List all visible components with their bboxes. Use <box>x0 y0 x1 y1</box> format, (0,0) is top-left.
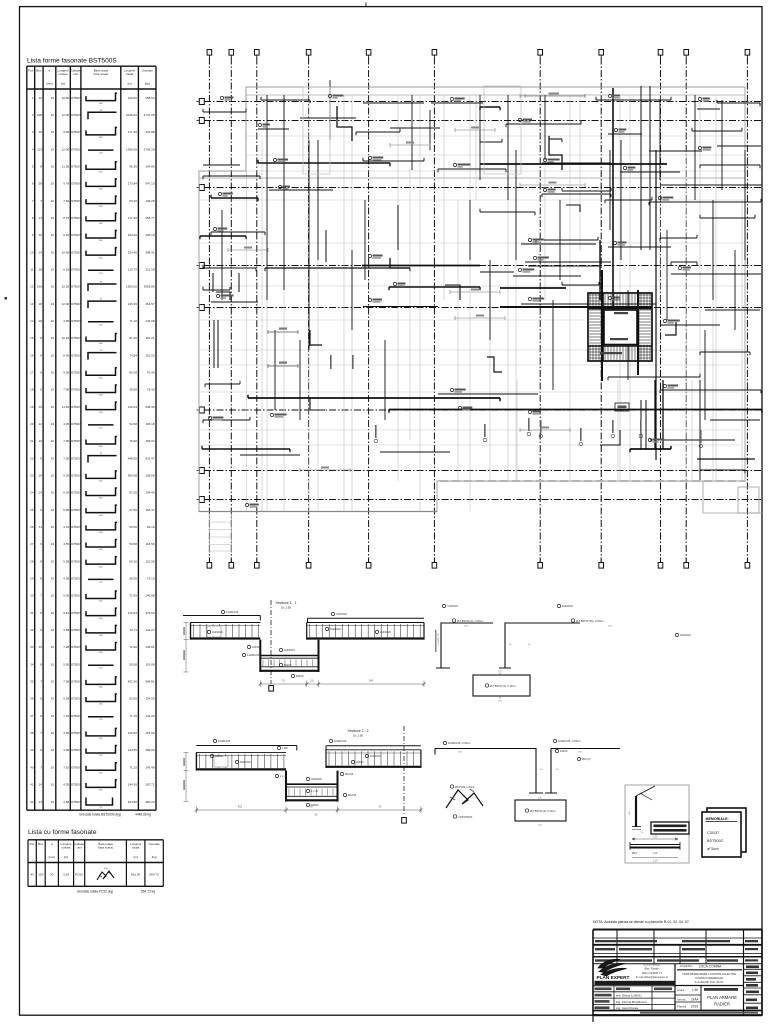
svg-text:9: 9 <box>40 371 42 375</box>
svg-text:28: 28 <box>30 559 34 563</box>
svg-text:BST500S: BST500S <box>70 267 82 271</box>
svg-text:Ø10/15: Ø10/15 <box>348 794 357 797</box>
svg-text:24: 24 <box>30 491 34 495</box>
svg-text:10: 10 <box>30 250 34 254</box>
svg-text:Ø 8 BST50-10, c=25cm: Ø 8 BST50-10, c=25cm <box>457 620 483 623</box>
svg-text:10: 10 <box>51 113 55 117</box>
svg-text:126: 126 <box>498 701 502 703</box>
svg-text:BST500S: BST500S <box>70 577 82 581</box>
svg-text:125: 125 <box>99 273 103 275</box>
svg-text:79.60: 79.60 <box>129 439 137 443</box>
svg-text:125: 125 <box>99 427 103 429</box>
svg-text:5.28: 5.28 <box>63 697 69 701</box>
svg-text:4.55: 4.55 <box>63 731 69 735</box>
svg-text:125: 125 <box>99 719 103 721</box>
svg-text:71.15: 71.15 <box>129 714 137 718</box>
svg-text:otel: otel <box>73 72 78 76</box>
svg-text:8xØ10: 8xØ10 <box>215 755 223 758</box>
svg-text:141.27: 141.27 <box>145 628 155 632</box>
svg-text:547.13: 547.13 <box>145 182 155 186</box>
svg-text:PLAN EXPERT: PLAN EXPERT <box>597 975 630 980</box>
svg-text:452.36: 452.36 <box>128 680 138 684</box>
svg-text:360: 360 <box>99 446 103 448</box>
svg-text:125: 125 <box>99 582 103 584</box>
svg-text:59.58: 59.58 <box>129 542 137 546</box>
svg-text:1.20: 1.20 <box>653 836 658 839</box>
svg-text:79.40: 79.40 <box>147 388 155 392</box>
svg-text:a² 5cm: a² 5cm <box>707 847 719 851</box>
svg-text:Sc 1:50: Sc 1:50 <box>281 606 292 610</box>
svg-text:10: 10 <box>51 233 55 237</box>
svg-text:72.90: 72.90 <box>129 645 137 649</box>
svg-text:360: 360 <box>99 189 103 191</box>
svg-text:360: 360 <box>99 738 103 740</box>
svg-text:6.15: 6.15 <box>63 267 69 271</box>
svg-text:16: 16 <box>39 405 43 409</box>
svg-text:7xØ10/20: 7xØ10/20 <box>336 613 347 616</box>
svg-text:360: 360 <box>99 532 103 534</box>
svg-text:74.84: 74.84 <box>129 353 137 357</box>
svg-text:LOCA COMNA: LOCA COMNA <box>699 965 722 969</box>
svg-text:1:50: 1:50 <box>692 988 698 992</box>
svg-text:RADIER: RADIER <box>714 1002 730 1007</box>
svg-text:BST500S: BST500S <box>70 164 82 168</box>
svg-text:10: 10 <box>51 748 55 752</box>
svg-text:10: 10 <box>51 422 55 426</box>
svg-text:360: 360 <box>99 635 103 637</box>
svg-text:BST500S: BST500S <box>70 113 82 117</box>
svg-text:289.00: 289.00 <box>145 748 155 752</box>
svg-text:7: 7 <box>40 765 42 769</box>
svg-text:12: 12 <box>30 285 34 289</box>
svg-text:[mm]: [mm] <box>49 855 56 859</box>
svg-text:78: 78 <box>100 350 103 352</box>
svg-text:BST500S: BST500S <box>70 594 82 598</box>
svg-text:360: 360 <box>99 790 103 792</box>
svg-text:52.68: 52.68 <box>129 422 137 426</box>
svg-text:10: 10 <box>51 662 55 666</box>
svg-text:10: 10 <box>51 697 55 701</box>
svg-text:6: 6 <box>32 182 34 186</box>
svg-text:[kg]: [kg] <box>145 82 150 86</box>
svg-text:CUI B-292018,: CUI B-292018, <box>643 963 660 967</box>
svg-text:BST500S: BST500S <box>70 250 82 254</box>
svg-text:206.19: 206.19 <box>145 233 155 237</box>
svg-text:BST500S: BST500S <box>70 199 82 203</box>
svg-text:23: 23 <box>30 474 34 478</box>
svg-text:BST500S: BST500S <box>70 731 82 735</box>
svg-text:10: 10 <box>51 199 55 203</box>
svg-text:format: format <box>677 998 686 1002</box>
svg-text:9xØ10/20: 9xØ10/20 <box>562 605 573 608</box>
svg-text:14: 14 <box>39 491 43 495</box>
svg-text:10: 10 <box>51 147 55 151</box>
svg-text:SI SPATII COMERCIALE: SI SPATII COMERCIALE <box>695 977 723 980</box>
svg-text:4.55: 4.55 <box>63 542 69 546</box>
svg-text:19: 19 <box>30 405 34 409</box>
svg-text:310.04: 310.04 <box>128 405 138 409</box>
svg-text:10: 10 <box>51 405 55 409</box>
svg-text:360: 360 <box>99 171 103 173</box>
svg-text:Poz: Poz <box>30 842 36 846</box>
svg-text:531.47: 531.47 <box>145 456 155 460</box>
svg-text:Lista forme fasonate BST500S: Lista forme fasonate BST500S <box>27 58 117 65</box>
svg-text:5: 5 <box>40 714 42 718</box>
svg-text:4.35: 4.35 <box>63 422 69 426</box>
svg-text:8: 8 <box>40 336 42 340</box>
svg-text:40: 40 <box>30 765 34 769</box>
svg-text:171.36: 171.36 <box>128 130 138 134</box>
svg-text:360: 360 <box>99 566 103 568</box>
svg-text:104.40: 104.40 <box>145 491 155 495</box>
svg-text:Ø10 (6): Ø10 (6) <box>582 758 591 761</box>
svg-text:142.26: 142.26 <box>145 714 155 718</box>
svg-text:9: 9 <box>40 456 42 460</box>
svg-text:×8 BST500S: ×8 BST500S <box>458 816 473 819</box>
svg-text:258.54: 258.54 <box>145 96 155 100</box>
svg-text:10: 10 <box>39 439 43 443</box>
svg-text:17: 17 <box>30 371 34 375</box>
svg-text:50: 50 <box>315 813 318 817</box>
svg-text:10: 10 <box>51 285 55 289</box>
svg-text:78: 78 <box>100 110 103 112</box>
svg-text:360: 360 <box>99 687 103 689</box>
svg-text:1.06: 1.06 <box>653 852 658 855</box>
svg-text:1356.00: 1356.00 <box>126 147 137 151</box>
svg-text:BST500S: BST500S <box>70 800 82 804</box>
svg-text:29: 29 <box>30 577 34 581</box>
svg-text:39: 39 <box>30 748 34 752</box>
svg-text:45: 45 <box>528 644 531 646</box>
svg-text:10: 10 <box>51 456 55 460</box>
svg-text:3.58: 3.58 <box>63 800 69 804</box>
svg-text:12: 12 <box>39 96 43 100</box>
svg-text:45: 45 <box>509 644 512 646</box>
svg-text:5.95: 5.95 <box>63 508 69 512</box>
svg-text:904.81: 904.81 <box>145 680 155 684</box>
svg-text:78: 78 <box>100 281 103 283</box>
svg-text:10: 10 <box>51 353 55 357</box>
svg-text:73.10: 73.10 <box>147 577 155 581</box>
svg-text:BST500S: BST500S <box>70 285 82 289</box>
svg-text:9.90: 9.90 <box>63 371 69 375</box>
svg-text:71.15: 71.15 <box>129 765 137 769</box>
svg-text:ing. Florina Bratulescu: ing. Florina Bratulescu <box>616 1000 647 1004</box>
svg-text:Ø10/15: Ø10/15 <box>345 773 354 776</box>
svg-text:BST500S: BST500S <box>70 388 82 392</box>
svg-text:7: 7 <box>32 199 34 203</box>
svg-text:2: 2 <box>32 113 34 117</box>
svg-text:PC52: PC52 <box>75 873 83 877</box>
svg-text:126: 126 <box>498 671 502 673</box>
svg-text:45: 45 <box>556 769 559 771</box>
svg-text:10xØ10/20: 10xØ10/20 <box>334 740 347 743</box>
svg-text:76.40: 76.40 <box>147 371 155 375</box>
svg-text:30: 30 <box>30 594 34 598</box>
svg-text:10: 10 <box>51 302 55 306</box>
svg-text:4747.25: 4747.25 <box>144 113 155 117</box>
svg-text:BST500S: BST500S <box>70 491 82 495</box>
svg-text:375.53: 375.53 <box>145 611 155 615</box>
svg-text:25: 25 <box>30 508 34 512</box>
svg-text:BST500S: BST500S <box>70 96 82 100</box>
svg-text:9.05: 9.05 <box>63 130 69 134</box>
svg-text:CONSTRUIRE IMOBIL LOCUINTE COL: CONSTRUIRE IMOBIL LOCUINTE COLECTIVE <box>682 973 736 976</box>
svg-text:360: 360 <box>99 772 103 774</box>
svg-text:10: 10 <box>51 164 55 168</box>
svg-text:BST500S: BST500S <box>70 559 82 563</box>
svg-text:10: 10 <box>51 542 55 546</box>
svg-text:89.28: 89.28 <box>129 371 137 375</box>
svg-text:10: 10 <box>51 800 55 804</box>
svg-text:388.41: 388.41 <box>145 250 155 254</box>
svg-text:33: 33 <box>30 645 34 649</box>
svg-text:4xØ10/20: 4xØ10/20 <box>680 634 691 637</box>
svg-text:BST500S: BST500S <box>70 130 82 134</box>
svg-text:16: 16 <box>39 233 43 237</box>
svg-text:(fara scara): (fara scara) <box>98 846 113 850</box>
svg-text:3.26: 3.26 <box>63 873 69 877</box>
svg-text:300.68: 300.68 <box>128 474 138 478</box>
svg-text:Lista cu forme fasonate: Lista cu forme fasonate <box>28 829 97 836</box>
svg-text:BST500S: BST500S <box>70 336 82 340</box>
svg-text:36: 36 <box>30 697 34 701</box>
svg-text:216.36: 216.36 <box>128 302 138 306</box>
svg-text:7.96: 7.96 <box>63 439 69 443</box>
svg-text:360: 360 <box>99 223 103 225</box>
svg-text:648.45: 648.45 <box>145 405 155 409</box>
svg-text:10: 10 <box>51 731 55 735</box>
svg-text:117.36: 117.36 <box>128 216 137 220</box>
svg-text:ing. Ionel Florea: ing. Ionel Florea <box>616 1006 638 1010</box>
svg-text:500: 500 <box>464 626 468 628</box>
svg-text:8: 8 <box>32 216 34 220</box>
svg-text:Buc: Buc <box>38 842 44 846</box>
svg-text:BST500S: BST500S <box>70 233 82 237</box>
svg-text:10: 10 <box>51 525 55 529</box>
svg-text:10: 10 <box>51 267 55 271</box>
svg-text:16: 16 <box>30 353 34 357</box>
svg-text:341.88: 341.88 <box>145 130 155 134</box>
svg-text:119.08: 119.08 <box>146 662 155 666</box>
svg-text:16xØ10/25: 16xØ10/25 <box>218 740 231 743</box>
svg-text:BST500S: BST500S <box>70 662 82 666</box>
svg-text:258.77: 258.77 <box>145 216 155 220</box>
svg-text:52.50: 52.50 <box>129 697 137 701</box>
svg-text:6.45: 6.45 <box>63 233 69 237</box>
svg-text:9.61: 9.61 <box>63 611 69 615</box>
svg-text:2xØ10: 2xØ10 <box>252 646 260 649</box>
svg-text:BST500S: BST500S <box>70 697 82 701</box>
svg-text:126.55: 126.55 <box>128 731 138 735</box>
svg-text:1: 1 <box>32 96 34 100</box>
svg-text:BST500S: BST500S <box>70 353 82 357</box>
svg-text:7.15: 7.15 <box>63 765 69 769</box>
svg-text:10xØ10/25, c=52cm: 10xØ10/25, c=52cm <box>558 740 580 743</box>
svg-text:8xØ10: 8xØ10 <box>296 675 304 678</box>
svg-text:10: 10 <box>51 439 55 443</box>
svg-text:360: 360 <box>99 549 103 551</box>
svg-text:8.30: 8.30 <box>63 353 69 357</box>
svg-text:154.40: 154.40 <box>128 250 138 254</box>
svg-text:5: 5 <box>40 628 42 632</box>
svg-text:360: 360 <box>99 257 103 259</box>
svg-text:360: 360 <box>99 412 103 414</box>
svg-text:7.96: 7.96 <box>63 680 69 684</box>
svg-text:70: 70 <box>282 679 285 683</box>
svg-text:unitara: unitara <box>62 846 71 850</box>
svg-text:4.35: 4.35 <box>63 783 69 787</box>
svg-text:MEMORIALE:: MEMORIALE: <box>706 817 729 821</box>
svg-text:448.56: 448.56 <box>128 456 138 460</box>
svg-text:164.86: 164.86 <box>128 800 138 804</box>
svg-text:9: 9 <box>40 353 42 357</box>
svg-text:360: 360 <box>99 395 103 397</box>
svg-text:LOCATIA:: LOCATIA: <box>680 964 693 968</box>
svg-text:5.58: 5.58 <box>63 559 69 563</box>
svg-text:50.26: 50.26 <box>129 559 137 563</box>
svg-text:(fara scara): (fara scara) <box>93 72 108 76</box>
svg-text:360: 360 <box>99 755 103 757</box>
svg-text:BST500S: BST500S <box>70 714 82 718</box>
svg-text:129.60: 129.60 <box>128 96 138 100</box>
svg-text:27: 27 <box>30 542 34 546</box>
svg-text:Sectiune 1 - 1: Sectiune 1 - 1 <box>276 601 297 605</box>
svg-text:166: 166 <box>37 285 42 289</box>
svg-text:78: 78 <box>100 299 103 301</box>
svg-text:104.55: 104.55 <box>145 697 155 701</box>
svg-text:7: 7 <box>40 199 42 203</box>
svg-text:Sc 1:50: Sc 1:50 <box>353 734 364 738</box>
svg-text:20: 20 <box>641 832 644 834</box>
svg-text:[m]: [m] <box>128 82 132 86</box>
svg-text:7xØ10/20: 7xØ10/20 <box>447 605 458 608</box>
svg-text:Greutate totala BST500S (kg): Greutate totala BST500S (kg) <box>79 813 121 817</box>
svg-text:38: 38 <box>30 731 34 735</box>
svg-text:7.28: 7.28 <box>63 645 69 649</box>
svg-text:144.55: 144.55 <box>128 748 138 752</box>
svg-text:15: 15 <box>30 336 34 340</box>
svg-text:Ø 8 BST50 (2) c=10cm: Ø 8 BST50 (2) c=10cm <box>490 685 516 688</box>
svg-text:Ø 8 BST50 (4) c=10cm: Ø 8 BST50 (4) c=10cm <box>530 810 556 813</box>
svg-text:47.50: 47.50 <box>129 508 137 512</box>
svg-text:50: 50 <box>311 679 314 683</box>
svg-text:BST500S: BST500S <box>70 439 82 443</box>
svg-text:10: 10 <box>51 559 55 563</box>
svg-text:3.95: 3.95 <box>63 319 69 323</box>
svg-text:Greutate: Greutate <box>142 69 154 73</box>
svg-text:10: 10 <box>51 491 55 495</box>
svg-text:37: 37 <box>30 714 34 718</box>
svg-text:Poz: Poz <box>28 69 34 73</box>
svg-text:[kg]: [kg] <box>152 855 157 859</box>
svg-text:5xØ10/20: 5xØ10/20 <box>330 628 341 631</box>
svg-text:otel: otel <box>77 846 82 850</box>
svg-text:8: 8 <box>40 577 42 581</box>
svg-text:Ø10: Ø10 <box>632 851 637 855</box>
svg-text:a: a <box>51 842 53 846</box>
svg-text:4.76: 4.76 <box>63 525 69 529</box>
svg-text:14: 14 <box>39 800 43 804</box>
svg-text:168: 168 <box>37 113 42 117</box>
svg-text:BST500S: BST500S <box>70 371 82 375</box>
svg-text:7.60: 7.60 <box>63 199 69 203</box>
svg-text:72.95: 72.95 <box>129 594 137 598</box>
svg-text:6: 6 <box>40 508 42 512</box>
svg-text:561.20: 561.20 <box>131 873 141 877</box>
svg-text:36.55: 36.55 <box>129 577 137 581</box>
svg-text:59.58: 59.58 <box>129 662 137 666</box>
svg-text:[m]: [m] <box>134 855 138 859</box>
svg-text:10.60: 10.60 <box>62 250 70 254</box>
svg-text:78: 78 <box>100 453 103 455</box>
svg-text:8xØ10: 8xØ10 <box>311 804 319 807</box>
svg-text:360: 360 <box>99 515 103 517</box>
svg-text:56.50: 56.50 <box>129 525 137 529</box>
svg-text:arh. Elena LUNGU: arh. Elena LUNGU <box>616 994 642 998</box>
svg-text:340: 340 <box>369 679 374 683</box>
svg-text:10: 10 <box>51 250 55 254</box>
svg-text:BST500S: BST500S <box>70 628 82 632</box>
svg-text:71.10: 71.10 <box>129 319 137 323</box>
svg-text:BST500S: BST500S <box>70 525 82 529</box>
svg-text:[mm]: [mm] <box>46 82 53 86</box>
svg-text:11.90: 11.90 <box>62 164 70 168</box>
svg-text:70.71: 70.71 <box>129 628 137 632</box>
svg-text:8.75: 8.75 <box>63 216 69 220</box>
svg-text:4.58: 4.58 <box>63 577 69 581</box>
svg-text:5.95: 5.95 <box>63 662 69 666</box>
svg-text:10.80: 10.80 <box>62 96 70 100</box>
svg-text:10: 10 <box>39 645 43 649</box>
svg-text:8: 8 <box>40 748 42 752</box>
svg-text:10: 10 <box>51 783 55 787</box>
svg-text:BST500S: BST500S <box>70 474 82 478</box>
svg-text:Buc: Buc <box>36 69 42 73</box>
svg-text:360: 360 <box>99 704 103 706</box>
svg-text:5: 5 <box>40 388 42 392</box>
svg-text:11: 11 <box>30 267 33 271</box>
svg-text:1653.00: 1653.00 <box>126 285 137 289</box>
svg-text:10: 10 <box>51 474 55 478</box>
svg-text:Telfon 004548 VT,: Telfon 004548 VT, <box>642 971 663 975</box>
svg-text:94.16: 94.16 <box>147 525 155 529</box>
svg-text:3x11: 3x11 <box>104 868 109 870</box>
svg-text:2xØ10: 2xØ10 <box>356 761 364 764</box>
svg-text:10: 10 <box>51 336 55 340</box>
svg-text:18: 18 <box>30 388 34 392</box>
svg-text:34: 34 <box>30 662 34 666</box>
svg-text:9: 9 <box>40 559 42 563</box>
svg-text:BST500S: BST500S <box>70 147 82 151</box>
svg-text:8: 8 <box>40 662 42 666</box>
svg-text:16xØ10/25: 16xØ10/25 <box>226 611 239 614</box>
svg-text:41: 41 <box>30 783 34 787</box>
svg-text:7: 7 <box>40 680 42 684</box>
svg-text:81.20: 81.20 <box>129 336 137 340</box>
svg-text:4xØ10/15: 4xØ10/15 <box>284 649 295 652</box>
svg-text:BST500S: BST500S <box>70 182 82 186</box>
svg-text:145.88: 145.88 <box>145 594 155 598</box>
svg-text:2016.00: 2016.00 <box>126 113 137 117</box>
svg-text:500: 500 <box>458 752 462 754</box>
svg-text:Sectiune 2 - 2: Sectiune 2 - 2 <box>348 729 369 733</box>
svg-text:10: 10 <box>51 96 55 100</box>
svg-text:18: 18 <box>39 319 43 323</box>
svg-text:C30/37: C30/37 <box>707 831 719 835</box>
svg-text:16xØ10/25, c=25cm: 16xØ10/25, c=25cm <box>448 742 470 745</box>
svg-text:106.28: 106.28 <box>145 199 155 203</box>
